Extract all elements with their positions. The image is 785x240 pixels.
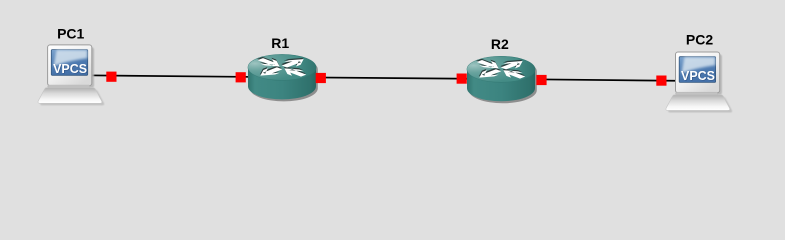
link status square R2 left (457, 74, 467, 84)
link status square PC1 side (106, 72, 116, 82)
node PC2 icon (666, 52, 732, 113)
wire R2-PC2 (501, 79, 701, 81)
link status square R2 right (536, 75, 546, 85)
wire PC1-R1 (72, 75, 282, 77)
svg-text:R1: R1 (271, 35, 289, 51)
node R1 icon (248, 54, 318, 101)
canvas background (0, 0, 785, 153)
svg-text:R2: R2 (491, 36, 509, 52)
link status square PC2 side (656, 76, 666, 86)
svg-text:PC1: PC1 (57, 26, 84, 42)
wire R1-R2 (282, 77, 501, 79)
node R2 icon (467, 56, 537, 103)
svg-text:PC2: PC2 (686, 31, 713, 47)
link status square R1 right (316, 73, 326, 83)
link status square R1 left (236, 72, 246, 82)
node PC1 icon (38, 45, 104, 106)
